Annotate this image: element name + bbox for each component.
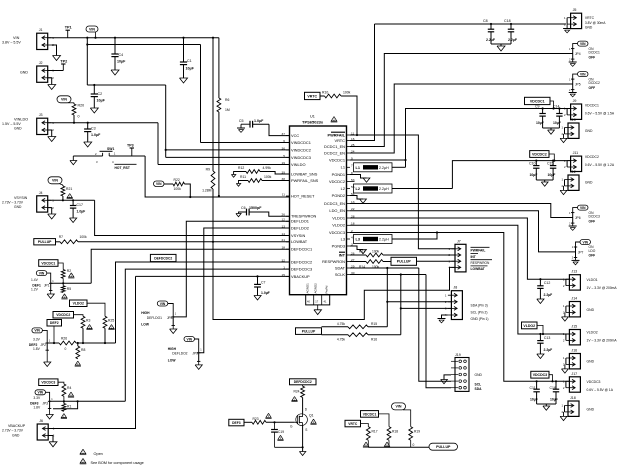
svg-text:SDA (Pin 3): SDA (Pin 3) (471, 304, 488, 308)
resistor R16 4.75k (322, 333, 401, 342)
svg-text:C7: C7 (261, 281, 266, 285)
net label PULLUP at R7 (34, 239, 56, 245)
svg-text:JP5: JP5 (575, 83, 581, 87)
resistor R15 4.75k (322, 322, 388, 329)
wire VINLDO vertical to chip row (158, 123, 290, 165)
note 1 Open (80, 449, 103, 456)
svg-text:VRTC: VRTC (307, 94, 317, 98)
jumper JP5 DCDC2 enable with VIN and ground (569, 72, 600, 97)
warning triangle at C19 (277, 435, 283, 440)
net label VDCDC2 output (530, 151, 556, 162)
wire LOWBAT row to chip (78, 241, 290, 243)
wire PGND2 to ground (350, 196, 363, 200)
svg-text:OFF: OFF (589, 86, 596, 90)
svg-text:R23: R23 (253, 417, 259, 421)
wire J1 pin2 to ground (51, 45, 56, 56)
ground at JP3 pin2 (46, 409, 53, 420)
svg-text:LOW: LOW (168, 359, 177, 363)
wire DCDC3_EN to JP6 (350, 204, 573, 218)
wire L2 output to VDCDC2 rail (392, 161, 570, 189)
wire INT to J7 pin2 (383, 254, 455, 256)
resistor R6 1M (217, 38, 230, 197)
svg-text:GND: GND (585, 129, 593, 133)
svg-text:R12: R12 (238, 166, 244, 170)
svg-text:100k: 100k (174, 187, 182, 191)
svg-text:J1: J1 (39, 28, 43, 32)
resistor R3 (81, 316, 90, 328)
svg-text:JP9: JP9 (192, 352, 198, 356)
wire R10 to PWRFAIL net (341, 96, 358, 136)
svg-text:37: 37 (282, 132, 286, 136)
svg-text:10µF: 10µF (553, 121, 561, 125)
svg-text:PGND1: PGND1 (332, 172, 345, 177)
ground at U1 AGND (314, 310, 322, 315)
svg-text:DEF3: DEF3 (232, 421, 241, 425)
svg-text:7: 7 (351, 164, 353, 168)
jumper JP6 DCDC3 enable with VIN and ground (569, 205, 600, 230)
resistor R10 100k (320, 91, 351, 98)
svg-text:10µF: 10µF (548, 173, 556, 177)
svg-text:2.73V – 3.73V: 2.73V – 3.73V (2, 201, 24, 205)
wire DEFLDO1 to JP8 (173, 221, 289, 317)
ground at C11 C16 (537, 404, 556, 410)
ground at PGND1 (363, 178, 370, 182)
svg-text:J14: J14 (571, 297, 577, 301)
resistor R2 (61, 269, 71, 284)
svg-text:VIN: VIN (160, 302, 166, 306)
warning triangle at R8 (75, 361, 81, 366)
svg-text:4.75k: 4.75k (337, 322, 345, 326)
svg-text:JP3: JP3 (42, 401, 48, 405)
wire VDCDC1 sense to output rail (350, 109, 570, 162)
U1 AGND pins and thermal pad (306, 283, 330, 310)
svg-text:L1: L1 (341, 165, 345, 170)
warning triangle at Q1 (310, 419, 316, 424)
wire R16 to SCL (400, 307, 402, 334)
wire SW1 to HOT_RST row (145, 156, 289, 197)
jumper JP8 DEFLDO1 select (141, 311, 176, 327)
resistor R1 (62, 401, 71, 411)
ground at C1 (180, 78, 188, 83)
svg-text:10µF: 10µF (536, 121, 544, 125)
svg-text:3.3V: 3.3V (33, 396, 41, 400)
svg-text:10µF: 10µF (97, 99, 106, 103)
svg-text:R21: R21 (66, 187, 72, 191)
svg-text:21: 21 (282, 238, 286, 242)
svg-text:19: 19 (282, 161, 286, 165)
svg-text:DEFLDO2: DEFLDO2 (291, 225, 309, 230)
svg-text:1.2V: 1.2V (31, 287, 39, 291)
svg-text:VINDCDC3: VINDCDC3 (291, 155, 311, 160)
resistor R20 0ohm (72, 103, 84, 123)
test point TP3 (127, 143, 134, 156)
svg-text:PwPd: PwPd (325, 285, 329, 293)
wire LOWBAT U route to J7 pin4 (213, 242, 455, 320)
svg-text:0: 0 (65, 347, 67, 351)
svg-text:1.8V: 1.8V (33, 347, 41, 351)
connector J13 VLDO1 output (563, 270, 618, 290)
wire SCL branch to J8 (400, 273, 452, 308)
resistor R23 (244, 417, 295, 424)
svg-text:AGND2: AGND2 (314, 283, 318, 294)
svg-text:LOWBAT_SNS: LOWBAT_SNS (291, 171, 318, 176)
node VIN label at R21 (48, 177, 63, 185)
svg-text:4.75k: 4.75k (337, 338, 345, 342)
svg-text:VRTC: VRTC (585, 16, 595, 20)
svg-text:SCL (Pin 2): SCL (Pin 2) (471, 310, 488, 314)
net label VLDO2 (522, 322, 545, 335)
svg-text:DCDC3: DCDC3 (589, 215, 601, 219)
svg-text:J11: J11 (573, 151, 579, 155)
svg-text:1500pF: 1500pF (249, 206, 262, 210)
net label VDCDC1 at R18 (361, 411, 390, 427)
capacitor C9 10uF (535, 105, 546, 129)
svg-text:HIGH: HIGH (168, 347, 177, 351)
svg-text:VDCDC1: VDCDC1 (530, 99, 545, 103)
wire J19 ground (441, 375, 451, 384)
svg-text:0.6V – 5.5V @ 1A: 0.6V – 5.5V @ 1A (587, 388, 614, 392)
wire R1 parallel jog (53, 401, 78, 409)
node VIN label at JP1 (36, 271, 50, 284)
svg-text:C17: C17 (77, 203, 83, 207)
wire VIN branch B horizontal y44.5 (86, 43, 200, 45)
svg-text:DEFDCDC2: DEFDCDC2 (294, 380, 312, 384)
warning triangle at R23 (265, 413, 271, 418)
svg-text:10µF: 10µF (186, 67, 195, 71)
svg-text:DCDC2: DCDC2 (589, 81, 601, 85)
ground at C17 (70, 218, 77, 223)
svg-text:SDA: SDA (475, 387, 483, 391)
resistor R9 1.28M (202, 168, 215, 193)
svg-text:VIN: VIN (187, 337, 193, 341)
svg-text:SCLK: SCLK (335, 272, 346, 277)
svg-text:OFF: OFF (589, 219, 596, 223)
svg-text:SCL: SCL (475, 382, 482, 386)
svg-text:R9: R9 (206, 168, 210, 172)
connector J17 VDCDC3 output (563, 372, 614, 392)
svg-text:2.2µF: 2.2µF (486, 38, 496, 42)
svg-text:C2: C2 (98, 92, 103, 96)
svg-text:0: 0 (78, 115, 80, 119)
resistor R14 100k on RESPWRON (350, 260, 383, 269)
warning triangle at R24 (291, 397, 297, 402)
svg-text:VRTC: VRTC (334, 138, 345, 143)
capacitor C12 2.2uF (537, 278, 552, 299)
ground at J6 (49, 442, 57, 447)
wire VINDCDC2 vertical x165 (166, 85, 290, 150)
capacitor C10 10uF (529, 160, 540, 181)
wire J4 pin2 to ground (48, 208, 52, 214)
svg-text:R13: R13 (359, 250, 365, 254)
wire PGND3 to ground (350, 246, 363, 250)
warning triangle at R1 (61, 414, 67, 419)
svg-text:R20: R20 (78, 104, 85, 108)
wire R3 R25 bottoms to node (83, 328, 106, 344)
connector J11 VDCDC2 output (564, 151, 615, 171)
wire SW1 left to ground (72, 156, 74, 161)
capacitor C16 10uF (550, 380, 560, 404)
ground at PGND2 (360, 199, 367, 203)
svg-text:JP2: JP2 (40, 343, 46, 347)
ground at C10 C15 (536, 180, 553, 186)
svg-text:GND: GND (587, 308, 595, 312)
net label HOT_RST (115, 164, 137, 170)
wire VRTC pin to top rail (350, 24, 375, 141)
net label VLDO2 at R25 (70, 300, 106, 316)
svg-text:10µF: 10µF (550, 398, 558, 402)
net label VRTC at R10 (305, 92, 321, 99)
svg-text:J10: J10 (570, 118, 576, 122)
ground at PGND3 (360, 250, 367, 254)
node VIN label at JP9 (184, 337, 199, 353)
connector J3 VINLDO input (2, 113, 54, 134)
svg-text:GND: GND (14, 205, 22, 209)
svg-text:J17: J17 (571, 372, 577, 376)
svg-text:R1: R1 (67, 405, 71, 409)
transistor Q1 MOSFET (290, 414, 314, 432)
svg-text:VLDO1: VLDO1 (587, 278, 598, 282)
svg-text:DEF2: DEF2 (50, 321, 59, 325)
wire VLDO1 to output (350, 218, 569, 279)
connector J9 VDCDC1 output (564, 99, 615, 119)
svg-text:DCDC2_EN: DCDC2_EN (324, 150, 345, 155)
ground at J5 pin2 (563, 24, 571, 33)
ground at JP1 pin2 (47, 291, 54, 299)
wire pullup bottoms to INT (368, 440, 429, 447)
svg-text:VDCDC3: VDCDC3 (587, 380, 601, 384)
svg-text:26: 26 (282, 213, 286, 217)
svg-text:INT: INT (471, 255, 476, 259)
svg-text:1.0µF: 1.0µF (254, 119, 264, 123)
wire SCLK net (350, 275, 451, 388)
wire R24 to Q1 drain (303, 398, 308, 414)
svg-text:LOW: LOW (141, 323, 150, 327)
svg-text:R18: R18 (392, 430, 398, 434)
wire LDO_EN to JP7 (350, 211, 576, 252)
resistor R22 100k (164, 178, 185, 191)
svg-text:DCDC1_EN: DCDC1_EN (324, 144, 345, 149)
svg-text:VDCDC2: VDCDC2 (532, 152, 547, 156)
svg-text:J13: J13 (571, 270, 577, 274)
wire VINDCDC3 row (165, 149, 290, 158)
svg-text:PULLUP: PULLUP (436, 445, 451, 449)
jumper JP1 DEFDCDC1 select (31, 278, 54, 291)
node VIN label at JP2 (32, 328, 47, 343)
svg-text:GND (Pin 1): GND (Pin 1) (471, 317, 489, 321)
svg-text:HIGH: HIGH (141, 311, 150, 315)
svg-text:R7: R7 (59, 235, 63, 239)
ground at SW1 (70, 161, 77, 165)
svg-text:2.2µF: 2.2µF (544, 348, 553, 352)
svg-text:C1: C1 (187, 59, 192, 63)
capacitor C2 (91, 84, 106, 108)
svg-text:VIN: VIN (580, 42, 586, 46)
svg-text:J5: J5 (573, 8, 577, 12)
net label VRTC at R17 (345, 420, 361, 427)
warning triangle at R2 (68, 273, 74, 278)
svg-text:PGND2: PGND2 (332, 193, 345, 198)
ground at C2 (90, 108, 98, 113)
svg-text:VIN: VIN (13, 36, 20, 40)
connector J6 VBACKUP input (2, 419, 55, 440)
svg-text:GND: GND (587, 407, 595, 411)
op-amp U1 TPS65023 PMIC body (290, 115, 347, 295)
svg-text:TP1: TP1 (65, 26, 72, 30)
ground at JP8 pin2 (170, 326, 177, 334)
node VIN label at R19 (392, 403, 411, 427)
svg-text:1.28M: 1.28M (202, 189, 212, 193)
warning triangle at R4 (68, 392, 74, 397)
resistor R7 100k (56, 235, 88, 244)
svg-text:DCDC3_EN: DCDC3_EN (324, 201, 345, 206)
warning triangle at R18 (384, 442, 390, 447)
connector J10 GND (561, 118, 593, 138)
connector J16 GND (563, 349, 595, 369)
svg-text:VLDO2: VLDO2 (587, 331, 598, 335)
capacitor C3 (84, 122, 101, 142)
capacitor C13 2.2uF (537, 333, 552, 354)
connector J5 VRTC (564, 8, 606, 29)
svg-text:C15: C15 (547, 162, 553, 166)
svg-text:2.2µF: 2.2µF (508, 38, 518, 42)
wire VBACKUP to J6 (48, 276, 289, 428)
svg-text:C19: C19 (278, 430, 284, 434)
ground at J1 pin2 (53, 56, 61, 61)
ground at J12 (560, 186, 567, 195)
svg-text:GND: GND (585, 25, 593, 29)
wire J2 pin2 to ground (48, 78, 52, 85)
net label VDCDC1 output (525, 97, 555, 109)
test point TP2 (48, 60, 68, 71)
svg-text:1.0µF: 1.0µF (261, 291, 270, 295)
svg-text:L2: L2 (356, 187, 360, 191)
svg-text:R11: R11 (240, 175, 246, 179)
svg-text:J4: J4 (39, 191, 43, 195)
svg-text:PWRFAIL_SNS: PWRFAIL_SNS (291, 178, 319, 183)
wire PGND1 to ground (350, 175, 367, 179)
wire SDAT net (350, 268, 451, 381)
wire R15 to SDA (386, 301, 388, 327)
svg-text:VDCDC3: VDCDC3 (533, 373, 547, 377)
svg-text:VINDCDC1: VINDCDC1 (291, 140, 311, 145)
wire RESPWRON to J7 pin3 (417, 260, 456, 262)
connector J18 GND (561, 396, 594, 416)
node VIN label at R20 (57, 96, 74, 103)
ground at J16 (562, 364, 569, 373)
svg-text:R26: R26 (61, 337, 67, 341)
wire VRTC rail to J5 (375, 23, 567, 25)
capacitor C18 2.2uF (504, 19, 518, 44)
connector J7 status header (448, 239, 492, 272)
wire JP1 node to DEFDCDC1 (51, 282, 91, 284)
U1 right pin stubs and labels (322, 131, 355, 277)
svg-text:DEFDCDC2: DEFDCDC2 (154, 256, 172, 260)
svg-text:1.0µF: 1.0µF (77, 210, 86, 214)
svg-text:VDCDC2: VDCDC2 (585, 155, 599, 159)
svg-text:6: 6 (283, 139, 285, 143)
svg-text:39: 39 (282, 170, 286, 174)
capacitor C14 10uF (553, 105, 563, 129)
note 2 See BOM (80, 458, 144, 465)
wire JP2 node to DEFDCDC2 (76, 342, 115, 344)
svg-text:C13: C13 (544, 336, 550, 340)
svg-text:C9: C9 (535, 105, 540, 109)
svg-text:R19: R19 (414, 430, 420, 434)
svg-text:J19: J19 (455, 353, 461, 357)
ground at J18 (560, 412, 567, 421)
ground at J8 (438, 319, 446, 323)
svg-text:JP4: JP4 (575, 52, 581, 56)
svg-text:DEFDCDC1: DEFDCDC1 (291, 247, 312, 252)
svg-text:10µF: 10µF (530, 173, 538, 177)
connector J15 VLDO2 output (563, 325, 618, 345)
wire VLDO2 to output (350, 225, 569, 334)
svg-text:VIN: VIN (61, 98, 67, 102)
svg-text:TPS65023x: TPS65023x (302, 119, 324, 124)
node VIN label at JP3 (35, 390, 50, 402)
capacitor C17 1uF (70, 200, 85, 218)
svg-text:GND: GND (587, 360, 595, 364)
resistor R17 (366, 427, 377, 441)
svg-text:J8: J8 (453, 286, 457, 290)
svg-text:TP3: TP3 (127, 143, 134, 147)
svg-text:38: 38 (282, 177, 286, 181)
wire Q1 gate node to C19 (273, 421, 275, 429)
wire J8 GND pin to ground (442, 315, 448, 319)
wire VIN rail from J1 (48, 37, 219, 39)
svg-text:VDCDC1: VDCDC1 (329, 157, 345, 162)
svg-text:VDCDC3: VDCDC3 (41, 381, 55, 385)
svg-text:VDCDC2: VDCDC2 (329, 179, 345, 184)
net label DEF2 at JP2 (47, 320, 62, 345)
svg-text:J18: J18 (570, 396, 576, 400)
svg-text:55: 55 (351, 185, 355, 189)
wire PWRFAIL to J7 (350, 135, 455, 249)
wire J3 pin2 to ground (48, 130, 52, 137)
svg-text:JP8: JP8 (167, 316, 173, 320)
svg-text:SDAT: SDAT (335, 265, 346, 270)
warning triangle at R3 (86, 325, 92, 330)
node VIN label top (86, 26, 98, 39)
wire DEFLDO2 to JP9 (199, 228, 290, 353)
svg-text:J15: J15 (571, 325, 577, 329)
svg-text:L1: L1 (356, 166, 360, 170)
svg-text:DEFDCDC2: DEFDCDC2 (291, 259, 312, 264)
svg-text:LDO_EN: LDO_EN (329, 208, 345, 213)
svg-text:LOWBAT: LOWBAT (471, 267, 485, 271)
warning triangle 2 at U1 (331, 117, 338, 122)
wire DCDC2_EN to JP5 rail (350, 84, 573, 153)
svg-text:PULLUP: PULLUP (302, 330, 316, 334)
svg-text:VSYSIN: VSYSIN (14, 196, 28, 200)
resistor R13 100k on INT (350, 250, 383, 257)
svg-text:3.8V @ 30mA: 3.8V @ 30mA (585, 21, 606, 25)
U1 left pin stubs and labels (282, 132, 319, 279)
wire L3 output (392, 231, 438, 239)
svg-text:GND: GND (585, 181, 593, 185)
svg-text:C16: C16 (550, 386, 556, 390)
svg-text:VLDO2: VLDO2 (523, 324, 535, 328)
svg-text:GND: GND (12, 433, 20, 437)
svg-text:0.6V – 5.5V @ 1.2A: 0.6V – 5.5V @ 1.2A (585, 163, 615, 167)
svg-text:100k: 100k (343, 91, 351, 95)
svg-text:PULLUP: PULLUP (38, 240, 52, 244)
capacitor C11 10uF (530, 380, 540, 404)
svg-text:RESPWRON: RESPWRON (322, 259, 345, 264)
svg-text:R6: R6 (225, 98, 229, 102)
switch SW1 pushbutton (73, 147, 145, 164)
wire JP3 node to DEFDCDC3 (50, 400, 126, 402)
